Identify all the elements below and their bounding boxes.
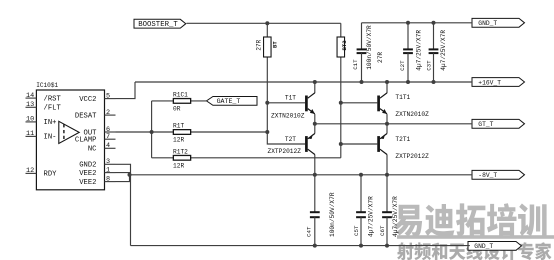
svg-text:GATE_T: GATE_T	[217, 98, 241, 105]
svg-text:ZXTP2012Z: ZXTP2012Z	[395, 153, 429, 160]
capacitor C5T 4u7/25V/X7R	[356, 175, 366, 246]
resistor R1T2 12R	[173, 148, 191, 169]
wire R1T row to RBT column	[152, 131, 268, 133]
op-amp gate-driver IC U1 IC10$1 box	[36, 90, 104, 190]
junction top GND rail / C2T	[406, 21, 410, 25]
wire T1T base	[267, 102, 305, 104]
junction +16V / C3T	[432, 80, 436, 84]
junction +16V / T1T collector	[313, 80, 317, 84]
net flag GT_T	[472, 119, 525, 128]
svg-text:IC10$1: IC10$1	[36, 82, 58, 89]
pin 11 IN- stub	[26, 135, 37, 137]
wire VEE2 pin1/pin8 join	[116, 173, 130, 182]
resistor BT3 27R	[337, 37, 348, 57]
svg-text:7: 7	[106, 133, 110, 141]
wire RBT column vertical	[266, 23, 268, 37]
pin 2 DESAT stub	[105, 114, 116, 116]
net flag BOOSTER_T	[134, 19, 186, 29]
svg-text:C2T: C2T	[399, 60, 406, 71]
pin 10 IN+ stub	[26, 121, 37, 123]
svg-text:DESAT: DESAT	[75, 112, 97, 120]
svg-text:GND2: GND2	[79, 162, 96, 170]
wire T2T1 emitter to GT rail	[386, 124, 388, 134]
svg-text:27R: 27R	[377, 52, 384, 63]
junction -8V / C5T	[359, 173, 363, 177]
junction RBT column / T1T base	[265, 101, 269, 105]
wire BOOSTER_T to resistor columns	[187, 22, 341, 24]
wire T1T emitter to GT rail	[314, 114, 316, 124]
svg-text:R1T2: R1T2	[173, 148, 188, 155]
svg-text:27R: 27R	[255, 39, 262, 50]
svg-text:T1T: T1T	[285, 95, 296, 102]
wire T1T1 base	[341, 102, 378, 104]
pin 12 RDY stub	[26, 172, 37, 174]
wire R1C1 row	[152, 100, 207, 102]
pin 4 NC stub	[105, 147, 116, 149]
wire VCC2 pin5 to +16V rail	[116, 82, 136, 99]
wire bottom GND rail	[131, 245, 470, 247]
net flag GATE_T	[207, 97, 258, 106]
net flag GND_T bottom	[468, 242, 522, 251]
svg-text:IN-: IN-	[44, 134, 57, 142]
svg-text:100n/50V/X7R: 100n/50V/X7R	[366, 25, 373, 70]
svg-text:0R: 0R	[173, 106, 181, 113]
junction GT rail / T1T1 emitters	[385, 122, 389, 126]
svg-text:/RST: /RST	[44, 95, 62, 103]
transistor T2T ZXTP2012Z	[268, 134, 315, 155]
wire T2T collector to -8V rail	[314, 155, 316, 175]
svg-text:12R: 12R	[173, 137, 184, 144]
wire T2T1 collector to -8V rail	[386, 155, 388, 175]
pin 13 /FLT stub	[26, 106, 37, 108]
watermark logo text 易迪拓培训	[394, 203, 547, 236]
svg-text:IN+: IN+	[44, 119, 57, 127]
junction RBT column / R1T out	[265, 130, 269, 134]
transistor T1T ZXTN2010Z	[271, 93, 315, 120]
watermark tagline 射频和天线设计专家	[397, 242, 551, 260]
svg-text:GND_T: GND_T	[478, 20, 497, 27]
wire T2T emitter to GT rail	[314, 124, 316, 134]
svg-text:13: 13	[26, 101, 34, 109]
svg-text:GND_T: GND_T	[474, 243, 493, 250]
watermark underline	[397, 235, 554, 239]
svg-text:12R: 12R	[173, 162, 184, 169]
svg-text:ZXTN2010Z: ZXTN2010Z	[271, 112, 305, 119]
junction OUT feeder / R1T row	[150, 130, 154, 134]
svg-text:C4T: C4T	[306, 226, 313, 237]
svg-text:GT_T: GT_T	[478, 121, 493, 128]
wire R1T2 jog up to T2T1 base node	[340, 144, 342, 158]
IC10$1 internal comparator triangle	[59, 121, 79, 143]
wire GND2 pin3 down to bottom rail	[116, 164, 131, 245]
svg-text:100n/50V/X7R: 100n/50V/X7R	[329, 192, 336, 237]
svg-text:C3T: C3T	[425, 60, 432, 71]
wire BT3 bottom column	[340, 57, 342, 144]
pin 7 CLAMP stub	[105, 138, 116, 140]
svg-text:+16V_T: +16V_T	[478, 79, 501, 86]
net flag GND_T top	[472, 18, 525, 27]
resistor R1T 12R	[173, 123, 191, 144]
svg-text:C6T: C6T	[379, 225, 386, 236]
svg-text:ZXTN2010Z: ZXTN2010Z	[395, 111, 429, 118]
junction BOOSTER_T / RBT	[265, 21, 269, 25]
svg-text:ZXTP2012Z: ZXTP2012Z	[268, 148, 302, 155]
pin 1 VEE2 stub	[105, 172, 116, 174]
svg-text:14: 14	[26, 92, 34, 100]
junction BT3 column / T2T1 base	[339, 142, 343, 146]
junction VEE2 / -8V rail	[128, 173, 132, 177]
svg-text:T1T1: T1T1	[395, 94, 410, 101]
junction +16V / C2T	[406, 80, 410, 84]
svg-text:4µ7/25V/X7R: 4µ7/25V/X7R	[392, 196, 399, 237]
junction +16V / T1T1 collector	[385, 80, 389, 84]
wire R1T2 row to BT3 column	[152, 157, 341, 159]
capacitor C4T 100n/50V/X7R	[310, 175, 320, 246]
svg-text:BT: BT	[272, 41, 279, 48]
svg-text:R1T: R1T	[173, 123, 184, 130]
wire GT_T rail	[315, 123, 472, 125]
wire T1T1 emitter to GT rail	[386, 114, 388, 124]
wire BT3 column top lead	[340, 23, 342, 37]
transistor T1T1 ZXTN2010Z	[379, 93, 430, 118]
junction top GND rail / C3T	[432, 21, 436, 25]
svg-text:4µ7/25V/X7R: 4µ7/25V/X7R	[440, 30, 447, 71]
junction -8V / T2T1 collector	[385, 173, 389, 177]
svg-text:3: 3	[106, 158, 110, 166]
wire T1T collector to +16V	[314, 82, 316, 93]
wire T1T1 collector to +16V	[386, 82, 388, 93]
resistor R1C1 0R	[173, 92, 191, 113]
svg-text:/FLT: /FLT	[44, 105, 62, 113]
junction BT3 column / T1T1 base	[339, 101, 343, 105]
svg-text:R1C1: R1C1	[173, 92, 188, 99]
svg-text:C5T: C5T	[353, 225, 360, 236]
capacitor C3T 4u7/25V/X7R	[429, 23, 439, 82]
svg-text:12: 12	[26, 167, 34, 175]
pin 8 VEE2 stub	[105, 181, 116, 183]
svg-text:CLAMP: CLAMP	[75, 137, 97, 145]
svg-text:VEE2: VEE2	[79, 179, 96, 187]
wire top GND rail	[362, 22, 473, 24]
svg-text:T2T1: T2T1	[395, 136, 410, 143]
svg-text:4µ7/25V/X7R: 4µ7/25V/X7R	[368, 196, 375, 237]
junction GT rail / T1T emitters	[313, 122, 317, 126]
pin 6 OUT stub	[105, 131, 116, 133]
pin 14 /RST stub	[26, 97, 37, 99]
junction bottom GND / C4T	[313, 244, 317, 248]
pin 5 VCC2 stub	[105, 98, 116, 100]
pin 3 GND2 stub	[105, 163, 116, 165]
svg-text:BT3: BT3	[341, 40, 348, 51]
svg-text:1: 1	[106, 166, 110, 174]
svg-text:10: 10	[26, 116, 34, 124]
junction bottom GND / C6T	[385, 244, 389, 248]
svg-text:T2T: T2T	[285, 136, 296, 143]
wire +16V rail	[135, 81, 472, 83]
transistor T2T1 ZXTP2012Z	[379, 134, 430, 160]
capacitor C1T 100n/50V/X7R	[357, 23, 367, 82]
svg-text:2: 2	[106, 109, 110, 117]
svg-text:VCC2: VCC2	[79, 96, 96, 104]
svg-text:BOOSTER_T: BOOSTER_T	[138, 21, 178, 29]
net flag -8V_T	[472, 170, 525, 179]
wire RBT bottom to T2T base corner	[267, 57, 305, 144]
svg-text:VEE2: VEE2	[79, 170, 96, 178]
wire feeder vertical	[151, 101, 153, 158]
svg-text:11: 11	[26, 130, 34, 138]
capacitor C6T 4u7/25V/X7R	[382, 175, 392, 246]
IC10$1 internal dashed isolation line	[63, 124, 65, 140]
svg-text:RDY: RDY	[44, 171, 58, 179]
junction -8V / T2T collector	[313, 173, 317, 177]
wire T2T1 base	[341, 143, 378, 145]
svg-text:NC: NC	[88, 146, 97, 154]
svg-text:-8V_T: -8V_T	[478, 172, 497, 179]
svg-text:4: 4	[106, 142, 110, 150]
junction +16V / C1T	[360, 80, 364, 84]
svg-text:8: 8	[106, 175, 110, 183]
svg-text:4µ7/25V/X7R: 4µ7/25V/X7R	[416, 30, 423, 71]
net flag +16V_T	[472, 78, 525, 87]
wire -8V rail	[130, 174, 473, 176]
svg-text:5: 5	[106, 92, 110, 100]
junction bottom GND / C5T	[359, 244, 363, 248]
resistor RBT 27R	[255, 37, 278, 57]
capacitor C2T 4u7/25V/X7R	[403, 23, 413, 82]
wire OUT pin6 to feeder	[116, 131, 152, 133]
svg-text:C1T: C1T	[352, 59, 359, 70]
